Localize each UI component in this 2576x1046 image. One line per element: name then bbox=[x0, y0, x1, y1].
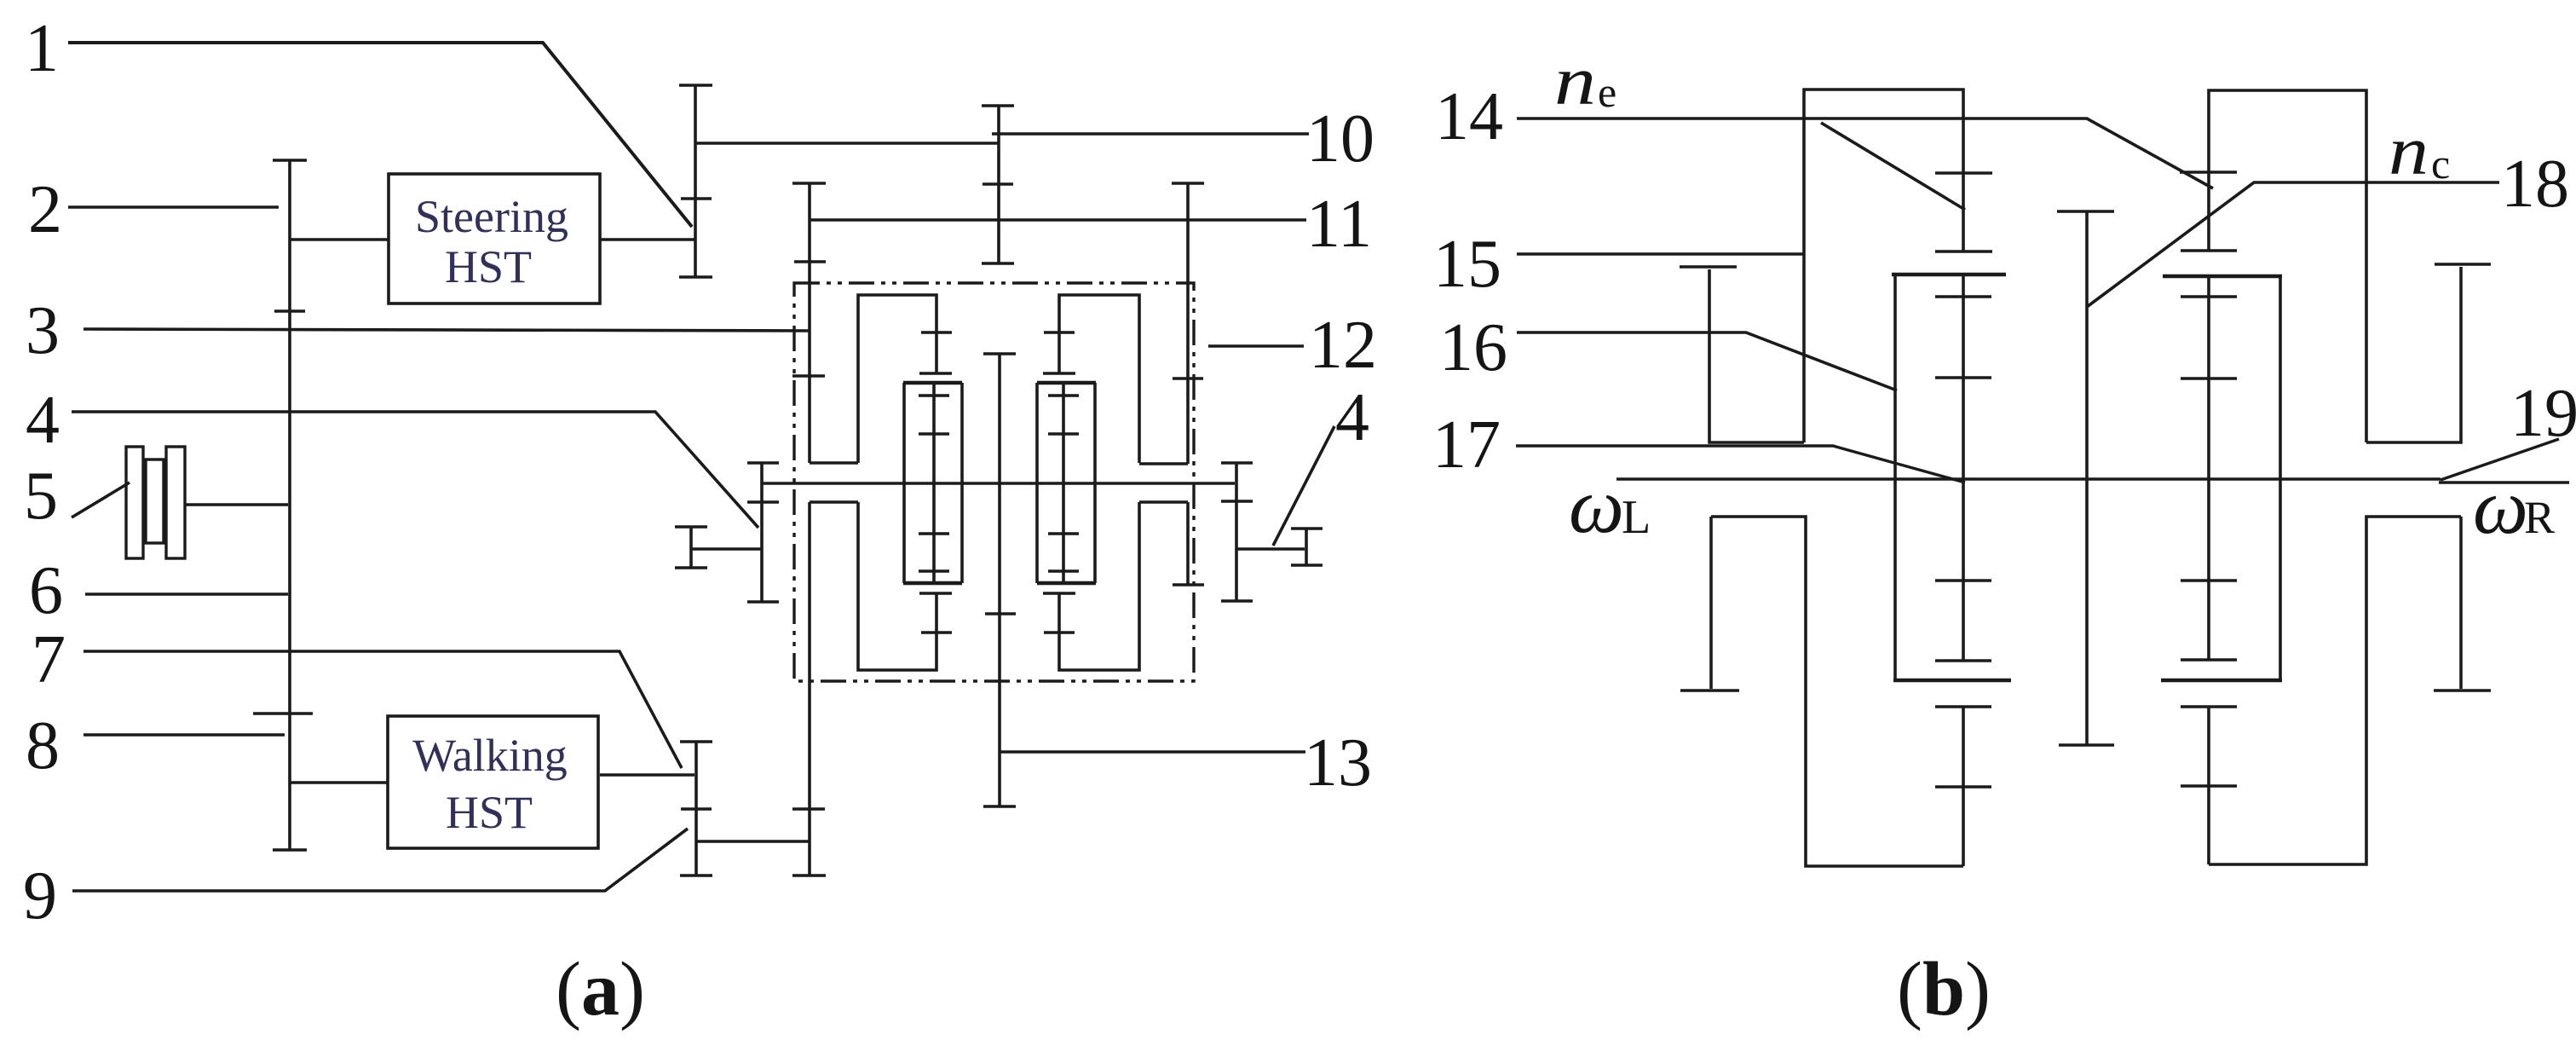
wire ring connector lower right bbox=[1139, 500, 1188, 504]
wire Walking HST to walking gear bbox=[600, 773, 694, 777]
wire idler to left axle shaft bbox=[691, 547, 762, 551]
wire walking gear to left sun shaft bbox=[696, 840, 810, 843]
svg-text:n: n bbox=[1554, 42, 1596, 119]
wire label-15 lead bbox=[1517, 252, 1804, 256]
svg-text:2: 2 bbox=[28, 172, 62, 247]
left wheel bracket bbox=[1711, 517, 1963, 866]
svg-text:c: c bbox=[2431, 140, 2450, 188]
wire Steering HST to gear shaft bbox=[600, 238, 695, 241]
walking output gear shaft bbox=[694, 742, 698, 876]
carrier right side bbox=[1093, 383, 1097, 583]
svg-text:5: 5 bbox=[24, 459, 58, 534]
wire ring connector lower left bbox=[810, 500, 858, 504]
gear tooth right output shaft bbox=[1173, 377, 1203, 380]
wire label-17 lead bbox=[1516, 446, 1965, 483]
svg-text:(b): (b) bbox=[1897, 947, 1991, 1032]
planet shaft left unit b upper bbox=[1962, 275, 1965, 661]
ring gear left unit b bbox=[1804, 90, 1963, 442]
wire label-10 lead bbox=[992, 132, 1309, 136]
left sun input shaft lower bbox=[808, 502, 811, 876]
gear tooth on input shaft lower bbox=[253, 712, 313, 715]
wire input shaft to Steering HST bbox=[290, 238, 389, 241]
left brake gear upper bbox=[1709, 269, 1804, 442]
carrier right unit b bottom bar bbox=[2161, 679, 2282, 683]
wire label-18 lead n_c bbox=[2087, 182, 2499, 307]
carrier left unit b top bar bbox=[1892, 273, 2006, 277]
ring gear right upper bbox=[1059, 295, 1139, 463]
svg-text:HST: HST bbox=[445, 241, 532, 292]
carrier right unit b side bbox=[2279, 276, 2282, 680]
steering output gear shaft bbox=[694, 85, 697, 277]
planet pinion shaft right bbox=[1062, 384, 1065, 581]
svg-text:4: 4 bbox=[1335, 380, 1369, 455]
ring gear right lower bbox=[1059, 502, 1139, 670]
wire label-13 lead bbox=[1000, 750, 1305, 754]
clutch 5 hub bbox=[146, 459, 164, 543]
svg-text:Steering: Steering bbox=[415, 191, 568, 242]
wire label-5 lead bbox=[72, 483, 130, 517]
gear tooth on input shaft upper bbox=[274, 309, 305, 313]
Steering HST box bbox=[389, 174, 600, 303]
svg-text:16: 16 bbox=[1439, 310, 1507, 385]
right brake gear upper bbox=[2366, 267, 2461, 442]
carrier left upper bar bbox=[903, 381, 962, 384]
svg-text:n: n bbox=[2389, 112, 2429, 189]
main axle b left part bbox=[1616, 477, 2441, 481]
svg-text:R: R bbox=[2524, 492, 2555, 543]
wire label-8 lead bbox=[84, 733, 285, 737]
gear tooth center shaft bbox=[985, 612, 1016, 615]
svg-text:HST: HST bbox=[446, 787, 533, 838]
gear tooth on steering output shaft bbox=[681, 197, 712, 200]
carrier left unit b side bbox=[1893, 275, 1897, 680]
gear tooth left sun shaft bbox=[794, 260, 826, 263]
gear tooth walking output shaft bbox=[681, 807, 712, 811]
svg-text:8: 8 bbox=[26, 708, 60, 783]
gear tooth on pto shaft bbox=[983, 182, 1013, 186]
wire steering gear to pto shaft bbox=[695, 142, 999, 145]
carrier right unit b top bar bbox=[2163, 275, 2282, 279]
svg-text:11: 11 bbox=[1306, 187, 1372, 262]
svg-text:7: 7 bbox=[32, 622, 66, 697]
wire label-4b lead bbox=[1273, 426, 1334, 546]
wire label-11 lead bbox=[810, 218, 1306, 222]
planet shaft right unit b lower bbox=[2207, 707, 2210, 864]
idler gear left bbox=[689, 527, 693, 568]
svg-text:6: 6 bbox=[29, 553, 63, 628]
wire label-3 lead bbox=[84, 329, 810, 331]
carrier right lower bar bbox=[1037, 581, 1096, 585]
left sun input shaft upper bbox=[808, 183, 811, 463]
planetary box 12 dash-dot frame bbox=[794, 283, 1194, 681]
svg-text:13: 13 bbox=[1304, 725, 1372, 800]
wire label-14 lead n_e bbox=[1517, 118, 2213, 188]
wire pointer 14 to left ring bbox=[1821, 123, 1965, 210]
right output shaft upper 11 bbox=[1186, 183, 1190, 464]
right axle gear shaft 4 bbox=[1235, 463, 1238, 601]
carrier left lower bar bbox=[903, 581, 962, 585]
wire label-6 lead bbox=[85, 592, 288, 596]
pto gear shaft 10 bbox=[997, 106, 1000, 263]
Walking HST box bbox=[388, 716, 598, 848]
idler gear right bbox=[1305, 529, 1308, 565]
input shaft 2 bbox=[288, 160, 291, 849]
wire label-7 lead bbox=[84, 651, 682, 768]
svg-text:14: 14 bbox=[1435, 79, 1503, 154]
wire label-9 lead bbox=[72, 829, 688, 891]
svg-text:1: 1 bbox=[25, 11, 59, 86]
svg-text:L: L bbox=[1622, 491, 1651, 544]
planet pinion shaft left bbox=[932, 384, 936, 581]
main axle through planetary bbox=[762, 482, 1235, 485]
wire clutch to input shaft bbox=[185, 503, 288, 506]
carrier left unit b bottom bar bbox=[1893, 679, 2011, 683]
sun shaft 13 center bbox=[998, 354, 1001, 806]
svg-text:ω: ω bbox=[1569, 462, 1624, 549]
gear tooth left axle shaft bbox=[747, 500, 779, 504]
gear tooth right axle shaft bbox=[1221, 500, 1253, 503]
svg-text:9: 9 bbox=[23, 858, 57, 933]
svg-text:17: 17 bbox=[1432, 407, 1501, 483]
main axle b right part bbox=[2439, 481, 2569, 484]
wire label-2 lead bbox=[68, 205, 279, 209]
planet shaft left unit b lower bbox=[1962, 707, 1965, 866]
svg-text:4: 4 bbox=[26, 383, 60, 458]
middle coupling shaft b bbox=[2085, 211, 2089, 745]
ring gear right unit b bbox=[2209, 90, 2366, 442]
ring gear left lower bbox=[858, 502, 936, 670]
svg-text:12: 12 bbox=[1309, 308, 1377, 383]
wire right axle shaft to idler bbox=[1236, 547, 1305, 551]
carrier left side bbox=[902, 383, 906, 583]
svg-text:3: 3 bbox=[26, 293, 60, 368]
carrier right upper bar bbox=[1037, 381, 1096, 384]
svg-text:ω: ω bbox=[2473, 463, 2528, 550]
wire ring connector upper right bbox=[1139, 462, 1188, 465]
right wheel bracket bbox=[2209, 517, 2461, 864]
gear tooth left sun shaft lower bbox=[792, 807, 825, 811]
wire label-12 lead bbox=[1208, 344, 1304, 348]
wire label-4 lead bbox=[72, 412, 758, 528]
svg-text:Walking: Walking bbox=[412, 730, 568, 781]
svg-text:(a): (a) bbox=[556, 947, 645, 1032]
svg-text:10: 10 bbox=[1306, 101, 1374, 176]
wire ring connector upper left bbox=[810, 461, 858, 465]
svg-text:e: e bbox=[1598, 68, 1616, 116]
left axle gear shaft bbox=[760, 463, 764, 602]
wire label-16 lead bbox=[1517, 332, 1897, 390]
right output shaft lower stub bbox=[1186, 502, 1190, 585]
ring gear left upper bbox=[858, 295, 936, 463]
wire label-1 lead bbox=[68, 43, 692, 227]
clutch 5 right plate bbox=[166, 447, 185, 558]
svg-text:18: 18 bbox=[2501, 147, 2569, 222]
wire label-19 lead bbox=[2441, 439, 2559, 480]
clutch 5 left plate bbox=[126, 447, 143, 558]
wire input shaft to Walking HST bbox=[290, 781, 388, 784]
svg-text:15: 15 bbox=[1433, 227, 1501, 302]
svg-text:19: 19 bbox=[2510, 376, 2576, 451]
planet shaft right unit b upper bbox=[2207, 276, 2210, 660]
